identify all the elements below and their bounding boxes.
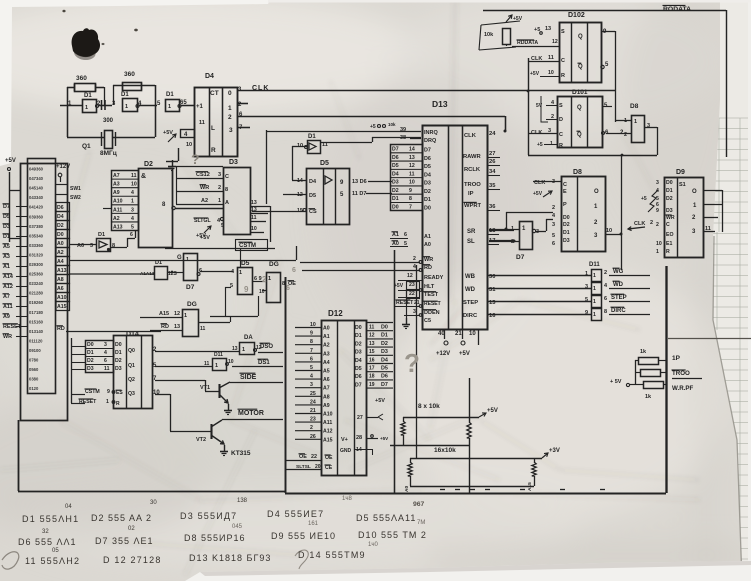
svg-text:S: S xyxy=(561,29,565,35)
svg-text:25: 25 xyxy=(310,391,316,397)
svg-text:Q1: Q1 xyxy=(128,363,135,369)
svg-text:19: 19 xyxy=(369,382,375,388)
svg-text:RCLK: RCLK xyxy=(464,167,481,173)
svg-text:13 D6: 13 D6 xyxy=(352,179,367,185)
svg-text:D0: D0 xyxy=(87,342,94,348)
svg-text:SLTGL: SLTGL xyxy=(194,218,211,224)
svg-text:14: 14 xyxy=(409,147,415,153)
svg-text:D4 555ИЕ7: D4 555ИЕ7 xyxy=(267,509,324,519)
svg-text:A14: A14 xyxy=(3,274,13,280)
svg-text:KT315: KT315 xyxy=(231,450,251,457)
svg-text:7: 7 xyxy=(409,204,412,210)
svg-text:D3: D3 xyxy=(229,159,238,166)
svg-text:D2: D2 xyxy=(666,196,673,202)
svg-text:READY: READY xyxy=(424,275,444,281)
svg-text:10: 10 xyxy=(469,331,476,337)
svg-text:2: 2 xyxy=(624,132,627,138)
svg-text:27: 27 xyxy=(357,415,363,421)
svg-text:D6: D6 xyxy=(392,155,399,161)
svg-text:0380: 0380 xyxy=(29,377,39,382)
svg-text:D9 555 ИE10: D9 555 ИE10 xyxy=(271,531,336,541)
svg-text:11: 11 xyxy=(131,173,137,179)
svg-text:D5: D5 xyxy=(309,193,316,199)
svg-text:D101: D101 xyxy=(572,89,588,96)
svg-text:02: 02 xyxy=(128,526,135,532)
svg-text:A2: A2 xyxy=(57,250,64,256)
svg-text:D4: D4 xyxy=(355,358,362,364)
svg-text:9: 9 xyxy=(585,310,588,316)
svg-text:CLK: CLK xyxy=(534,180,545,186)
svg-text:1: 1 xyxy=(268,276,271,282)
svg-text:D8: D8 xyxy=(573,169,582,176)
svg-text:D1: D1 xyxy=(87,350,94,356)
svg-text:A9: A9 xyxy=(113,190,120,196)
svg-text:6: 6 xyxy=(104,358,107,364)
svg-text:5V: 5V xyxy=(536,103,543,109)
svg-text:WR: WR xyxy=(3,334,12,340)
svg-text:D5: D5 xyxy=(355,366,362,372)
svg-text:+12V: +12V xyxy=(436,351,450,357)
svg-text:11: 11 xyxy=(548,55,554,61)
svg-text:10k: 10k xyxy=(388,122,396,127)
svg-text:+5V: +5V xyxy=(380,436,388,441)
svg-text:D2: D2 xyxy=(115,358,122,364)
svg-text:+5: +5 xyxy=(641,196,647,202)
svg-text:18: 18 xyxy=(369,374,375,380)
svg-text:INRQ: INRQ xyxy=(424,130,438,136)
svg-text:D3: D3 xyxy=(381,349,388,355)
svg-text:4: 4 xyxy=(310,374,313,380)
svg-text:D2: D2 xyxy=(392,188,399,194)
svg-text:11: 11 xyxy=(199,120,205,126)
svg-text:A5: A5 xyxy=(323,369,330,375)
svg-text:967: 967 xyxy=(413,501,425,508)
svg-text:300: 300 xyxy=(103,118,114,124)
svg-text:7: 7 xyxy=(310,348,313,354)
svg-text:12: 12 xyxy=(552,39,558,45)
svg-text:5: 5 xyxy=(552,233,555,239)
svg-text:D1: D1 xyxy=(563,230,570,236)
svg-text:C: C xyxy=(561,58,565,64)
svg-text:?: ? xyxy=(404,348,420,378)
svg-text:025360: 025360 xyxy=(29,272,44,277)
svg-text:D2 555 AA 2: D2 555 AA 2 xyxy=(91,513,152,523)
svg-text:+1: +1 xyxy=(196,104,204,110)
svg-text:10: 10 xyxy=(548,70,554,76)
svg-text:A9: A9 xyxy=(323,403,330,409)
svg-text:1: 1 xyxy=(228,105,232,112)
svg-text:CLK: CLK xyxy=(634,221,645,227)
svg-text:STEP: STEP xyxy=(611,295,627,301)
svg-text:D1: D1 xyxy=(355,333,362,339)
svg-text:WR: WR xyxy=(424,257,433,263)
svg-text:043340: 043340 xyxy=(29,195,44,200)
svg-text:13: 13 xyxy=(251,200,257,206)
svg-text:D3: D3 xyxy=(87,366,94,372)
svg-text:+5V: +5V xyxy=(530,71,540,77)
svg-text:16: 16 xyxy=(369,357,375,363)
svg-text:11: 11 xyxy=(251,215,257,221)
svg-text:C: C xyxy=(563,182,567,188)
svg-text:10: 10 xyxy=(310,322,316,328)
svg-text:1: 1 xyxy=(85,105,88,111)
svg-text:Q0: Q0 xyxy=(128,348,135,354)
svg-text:6: 6 xyxy=(552,241,555,247)
svg-text:6: 6 xyxy=(404,232,407,238)
svg-text:O: O xyxy=(692,189,697,195)
svg-text:D0: D0 xyxy=(563,215,570,221)
svg-text:D0: D0 xyxy=(115,342,122,348)
svg-text:11: 11 xyxy=(104,366,110,372)
svg-text:+ 5V: + 5V xyxy=(610,379,622,385)
svg-text:C: C xyxy=(225,174,229,180)
svg-text:DDEN: DDEN xyxy=(424,310,440,316)
svg-text:E: E xyxy=(563,189,567,195)
svg-text:+5: +5 xyxy=(534,27,540,33)
svg-text:R: R xyxy=(559,143,563,149)
svg-text:Q2: Q2 xyxy=(128,377,135,383)
svg-text:WD: WD xyxy=(465,287,476,293)
svg-text:D0: D0 xyxy=(424,205,431,211)
svg-text:RDDATA: RDDATA xyxy=(517,40,538,46)
svg-text:10: 10 xyxy=(656,241,662,247)
svg-text:6: 6 xyxy=(310,356,313,362)
svg-text:CS: CS xyxy=(309,209,317,215)
svg-text:021280: 021280 xyxy=(29,291,44,296)
svg-text:D1: D1 xyxy=(308,134,316,140)
svg-text:1P: 1P xyxy=(672,355,681,362)
svg-text:Q1: Q1 xyxy=(82,143,91,150)
svg-text:2: 2 xyxy=(650,220,653,226)
svg-text:D7: D7 xyxy=(186,284,195,291)
svg-text:3: 3 xyxy=(131,207,134,213)
svg-text:11: 11 xyxy=(409,171,415,177)
svg-text:A3: A3 xyxy=(113,182,120,188)
svg-text:A10: A10 xyxy=(113,199,123,205)
svg-text:360: 360 xyxy=(124,71,135,78)
svg-text:27: 27 xyxy=(489,151,495,157)
svg-text:DSO: DSO xyxy=(260,344,273,350)
svg-text:D5: D5 xyxy=(392,163,399,169)
svg-text:35: 35 xyxy=(489,183,496,189)
svg-text:D3: D3 xyxy=(115,366,122,372)
svg-text:8: 8 xyxy=(282,281,285,287)
svg-text:26: 26 xyxy=(310,434,316,440)
svg-text:P: P xyxy=(563,202,567,208)
svg-text:IP: IP xyxy=(468,191,474,197)
svg-text:360: 360 xyxy=(76,75,87,82)
svg-text:12: 12 xyxy=(369,333,375,339)
svg-text:037380: 037380 xyxy=(29,224,44,229)
svg-text:D1: D1 xyxy=(84,93,92,99)
svg-text:A6: A6 xyxy=(57,286,64,292)
svg-text:D13: D13 xyxy=(432,99,448,109)
svg-text:D3: D3 xyxy=(424,181,431,187)
svg-text:D2: D2 xyxy=(57,223,64,229)
svg-text:9: 9 xyxy=(656,208,659,214)
svg-text:D7: D7 xyxy=(381,382,388,388)
svg-text:D: D xyxy=(559,117,563,123)
svg-text:D6: D6 xyxy=(355,374,362,380)
svg-text:CLK: CLK xyxy=(464,133,477,139)
svg-text:D1: D1 xyxy=(3,234,10,240)
svg-text:D12: D12 xyxy=(328,309,343,318)
svg-text:DIRC: DIRC xyxy=(463,313,478,319)
svg-text:+5V: +5V xyxy=(200,235,210,241)
svg-text:36: 36 xyxy=(489,204,496,210)
svg-text:17: 17 xyxy=(369,366,375,372)
svg-text:035340: 035340 xyxy=(29,233,44,238)
svg-text:C: C xyxy=(559,132,563,138)
svg-text:138: 138 xyxy=(237,498,248,504)
svg-text:017180: 017180 xyxy=(29,310,44,315)
svg-text:E1: E1 xyxy=(666,241,672,247)
svg-text:8 x 10k: 8 x 10k xyxy=(418,403,440,410)
svg-text:D2: D2 xyxy=(381,341,388,347)
svg-text:D1: D1 xyxy=(121,92,129,98)
svg-text:D2: D2 xyxy=(424,189,431,195)
svg-text:A1: A1 xyxy=(323,334,330,340)
svg-text:013140: 013140 xyxy=(29,329,44,334)
svg-text:8: 8 xyxy=(409,196,412,202)
svg-text:9: 9 xyxy=(244,285,249,294)
svg-text:A11: A11 xyxy=(3,304,13,310)
svg-text:1: 1 xyxy=(593,286,596,292)
svg-text:5: 5 xyxy=(310,365,313,371)
svg-text:A12: A12 xyxy=(3,284,13,290)
svg-text:D5: D5 xyxy=(241,260,250,267)
svg-text:05: 05 xyxy=(52,548,59,554)
svg-text:6: 6 xyxy=(286,285,290,292)
svg-text:SL: SL xyxy=(467,239,475,245)
svg-text:1ч8: 1ч8 xyxy=(342,496,352,502)
svg-text:&: & xyxy=(141,173,146,180)
svg-text:22: 22 xyxy=(311,454,317,460)
svg-text:D1: D1 xyxy=(115,350,122,356)
svg-text:7М: 7М xyxy=(417,520,425,526)
svg-text:CS12: CS12 xyxy=(196,172,210,178)
svg-text:10k: 10k xyxy=(484,32,494,38)
svg-text:CE: CE xyxy=(325,465,333,471)
svg-text:SR: SR xyxy=(467,229,476,235)
svg-text:D4: D4 xyxy=(57,214,64,220)
svg-text:24: 24 xyxy=(489,131,496,137)
svg-text:A15: A15 xyxy=(323,437,333,443)
svg-text:A2: A2 xyxy=(113,216,120,222)
svg-text:RESET: RESET xyxy=(424,301,441,307)
svg-text:2: 2 xyxy=(218,185,221,191)
svg-text:10: 10 xyxy=(409,180,415,186)
svg-text:A8: A8 xyxy=(323,394,330,400)
svg-text:A0: A0 xyxy=(424,242,431,248)
svg-text:D6: D6 xyxy=(57,205,64,211)
svg-text:8: 8 xyxy=(225,187,228,193)
svg-text:A15: A15 xyxy=(527,482,533,491)
svg-text:1: 1 xyxy=(242,347,245,353)
svg-text:3: 3 xyxy=(413,309,416,315)
svg-text:HLT: HLT xyxy=(424,284,435,290)
svg-text:+5V: +5V xyxy=(5,158,16,164)
svg-text:SW1: SW1 xyxy=(70,186,81,192)
svg-text:5: 5 xyxy=(230,283,233,289)
svg-text:045: 045 xyxy=(232,524,243,530)
svg-text:30: 30 xyxy=(150,500,157,506)
svg-text:Q3: Q3 xyxy=(128,391,135,397)
svg-text:16x10k: 16x10k xyxy=(434,447,456,454)
svg-text:WPRT: WPRT xyxy=(464,203,482,209)
svg-text:?: ? xyxy=(191,151,200,167)
svg-text:047340: 047340 xyxy=(29,176,44,181)
svg-text:A8: A8 xyxy=(57,277,64,283)
svg-text:12: 12 xyxy=(174,311,180,317)
svg-text:RD: RD xyxy=(57,326,65,332)
svg-text:DA: DA xyxy=(244,335,253,341)
svg-text:5: 5 xyxy=(585,297,588,303)
svg-text:11 D7: 11 D7 xyxy=(352,191,366,197)
svg-text:A1: A1 xyxy=(424,234,431,240)
svg-text:D4: D4 xyxy=(205,73,214,80)
svg-text:1: 1 xyxy=(593,273,596,279)
svg-text:+5V: +5V xyxy=(163,130,173,136)
svg-text:04: 04 xyxy=(65,504,72,510)
svg-text:32: 32 xyxy=(42,529,49,535)
svg-text:1: 1 xyxy=(184,313,187,319)
svg-text:21: 21 xyxy=(310,408,316,414)
svg-text:23: 23 xyxy=(409,282,415,288)
svg-text:0: 0 xyxy=(228,90,232,97)
svg-text:3: 3 xyxy=(218,172,221,178)
svg-text:9: 9 xyxy=(310,331,313,337)
svg-text:A10: A10 xyxy=(323,412,333,418)
svg-text:3: 3 xyxy=(310,382,313,388)
svg-text:A11: A11 xyxy=(113,207,122,213)
svg-text:DG: DG xyxy=(187,301,197,308)
svg-text:D4: D4 xyxy=(309,179,317,185)
svg-text:+3V: +3V xyxy=(549,448,560,454)
svg-text:D3: D3 xyxy=(392,180,399,186)
svg-text:L: L xyxy=(211,125,215,132)
svg-text:C5: C5 xyxy=(424,318,431,324)
svg-text:1: 1 xyxy=(593,312,596,318)
svg-text:D5: D5 xyxy=(320,160,329,167)
svg-text:TEST: TEST xyxy=(424,292,439,298)
svg-text:3: 3 xyxy=(585,284,588,290)
svg-text:1: 1 xyxy=(131,199,134,205)
svg-text:13: 13 xyxy=(545,26,551,32)
svg-text:1: 1 xyxy=(593,299,596,305)
svg-text:DS1: DS1 xyxy=(258,360,270,366)
svg-text:DRQ: DRQ xyxy=(424,138,437,144)
svg-text:28: 28 xyxy=(356,435,362,441)
svg-text:CT: CT xyxy=(210,90,219,97)
svg-text:11: 11 xyxy=(369,325,375,331)
svg-text:R: R xyxy=(116,401,120,407)
svg-text:5: 5 xyxy=(131,224,134,230)
svg-text:D1: D1 xyxy=(98,232,105,238)
svg-text:8: 8 xyxy=(604,309,607,315)
svg-text:1k: 1k xyxy=(645,394,652,400)
svg-text:ES: ES xyxy=(116,390,123,396)
svg-text:D7: D7 xyxy=(3,204,10,210)
svg-text:A7: A7 xyxy=(3,294,10,300)
svg-text:15: 15 xyxy=(369,349,375,355)
svg-text:GND: GND xyxy=(340,448,352,454)
svg-text:D10 555 TM 2: D10 555 TM 2 xyxy=(358,530,427,540)
svg-text:A10: A10 xyxy=(57,295,67,301)
svg-text:1: 1 xyxy=(218,198,221,204)
svg-text:D2: D2 xyxy=(87,358,94,364)
svg-text:D0: D0 xyxy=(666,180,673,186)
svg-text:26: 26 xyxy=(489,159,496,165)
svg-text:1: 1 xyxy=(186,257,189,263)
svg-text:1: 1 xyxy=(125,104,128,110)
svg-text:A2: A2 xyxy=(323,343,330,349)
svg-text:011120: 011120 xyxy=(29,338,43,343)
svg-text:045140: 045140 xyxy=(29,186,44,191)
svg-text:2: 2 xyxy=(656,222,659,228)
svg-text:TROO: TROO xyxy=(672,370,690,377)
svg-text:TROO: TROO xyxy=(464,182,481,188)
svg-text:1: 1 xyxy=(239,270,242,276)
svg-text:D3: D3 xyxy=(563,238,570,244)
svg-text:D9: D9 xyxy=(676,169,685,176)
svg-text:D3 555ИД7: D3 555ИД7 xyxy=(180,511,237,521)
svg-text:4: 4 xyxy=(131,216,134,222)
svg-text:6: 6 xyxy=(130,232,133,238)
svg-text:RAWR: RAWR xyxy=(463,154,482,160)
svg-text:D5: D5 xyxy=(424,164,431,170)
svg-text:R: R xyxy=(211,147,216,154)
svg-text:019260: 019260 xyxy=(29,300,44,305)
svg-text:RD: RD xyxy=(424,265,432,271)
svg-text:D6 555 ΛΛ1: D6 555 ΛΛ1 xyxy=(18,537,77,547)
svg-text:D8: D8 xyxy=(630,103,639,110)
svg-text:Q: Q xyxy=(578,34,583,40)
svg-text:10: 10 xyxy=(186,142,192,148)
svg-text:D6: D6 xyxy=(424,156,431,162)
svg-text:2: 2 xyxy=(262,275,267,284)
svg-text:9: 9 xyxy=(107,389,110,395)
svg-text:023240: 023240 xyxy=(29,281,44,286)
svg-text:D1: D1 xyxy=(381,333,388,339)
svg-text:3: 3 xyxy=(552,222,555,228)
svg-text:0780: 0780 xyxy=(29,358,39,363)
svg-text:D0: D0 xyxy=(355,325,362,331)
svg-text:1: 1 xyxy=(106,399,109,405)
svg-text:D1: D1 xyxy=(392,196,399,202)
svg-text:D8 555ИР16: D8 555ИР16 xyxy=(184,533,246,543)
svg-text:12: 12 xyxy=(409,163,415,169)
svg-text:A3: A3 xyxy=(323,351,330,357)
svg-text:22: 22 xyxy=(409,291,415,297)
svg-text:WR: WR xyxy=(666,215,675,221)
svg-text:S1: S1 xyxy=(679,182,686,188)
svg-text:D 14 555TМ9: D 14 555TМ9 xyxy=(298,550,366,560)
svg-text:Q: Q xyxy=(577,105,582,111)
svg-text:WG: WG xyxy=(613,269,624,275)
svg-text:4: 4 xyxy=(413,264,416,270)
svg-text:1: 1 xyxy=(585,271,588,277)
svg-text:D7: D7 xyxy=(424,148,431,154)
svg-text:A15: A15 xyxy=(159,311,169,317)
svg-text:SIDE: SIDE xyxy=(240,374,257,381)
svg-text:23: 23 xyxy=(310,417,316,423)
svg-text:A5: A5 xyxy=(3,244,10,250)
svg-text:OE: OE xyxy=(299,454,307,460)
svg-text:A13: A13 xyxy=(57,268,67,274)
svg-text:1: 1 xyxy=(168,104,171,110)
svg-text:D1: D1 xyxy=(666,188,673,194)
